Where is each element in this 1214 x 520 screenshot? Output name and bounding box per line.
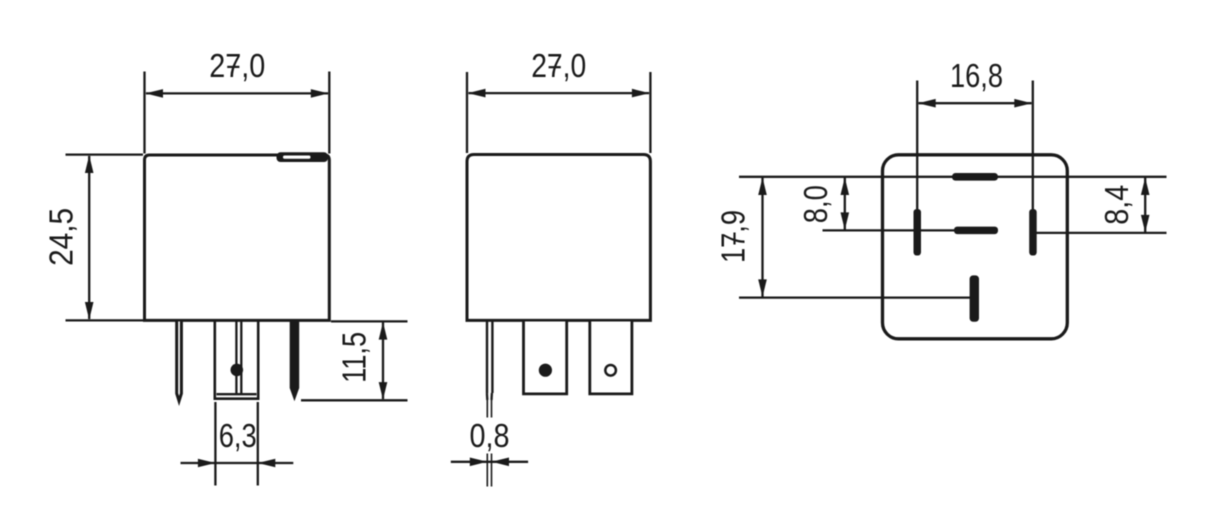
vent detail top-right (black bar)	[277, 152, 329, 162]
crossbar of 7 (middle)	[549, 66, 561, 68]
svg-text:24,5: 24,5	[43, 208, 80, 266]
ref line 8,0 bottom	[823, 229, 955, 231]
pin slot right (vertical bar)	[1029, 209, 1037, 256]
dim 8,0 arrow bottom	[841, 212, 850, 230]
pin slot left (vertical bar)	[914, 209, 922, 256]
svg-text:17,9: 17,9	[715, 210, 752, 263]
dim 16,8 dimension line	[919, 102, 1032, 104]
dim 8,0 dimension line	[844, 178, 846, 230]
pin 2 inner vertical line a	[235, 322, 237, 394]
svg-text:8,4: 8,4	[1098, 185, 1135, 225]
ref line 8,4 bottom	[1037, 232, 1167, 234]
dim 6,3 arrow R (outside)	[258, 459, 276, 468]
pin 4 taper b	[490, 393, 493, 400]
pin 2 bottom outer edge	[214, 397, 260, 400]
dim 27,0 mid extension line L	[466, 72, 468, 153]
dim 8,0 arrow top	[841, 178, 850, 196]
dim 11,5 arrow top	[379, 322, 388, 340]
dim 24,5 top extension line	[66, 153, 144, 155]
dim 0,8 arrow L (outside)	[470, 458, 488, 467]
svg-text:6,3: 6,3	[219, 417, 257, 454]
pin 3 (solid blade, pointed tip)	[290, 322, 300, 402]
svg-text:0,8: 0,8	[470, 417, 510, 454]
dim 16,8 arrow L	[918, 99, 936, 108]
pin 4 (narrow blade edge-on) line a	[486, 322, 488, 394]
svg-text:8,0: 8,0	[797, 185, 834, 223]
dim 27,0 left dimension line	[146, 92, 328, 94]
dim 27,0 mid arrow R	[632, 89, 650, 98]
vent slot (white)	[283, 156, 311, 159]
dim 8,4 arrow bottom	[1141, 215, 1150, 233]
pin slot bottom (vertical bar)	[970, 275, 979, 321]
pin 6 (blade with hole) outline	[590, 322, 632, 394]
ref line top (17,9 / 8,0 / 8,4 top)	[739, 176, 1167, 178]
dim 6,3 extension line L	[214, 402, 216, 486]
dim 11,5 arrow bottom	[379, 382, 388, 400]
pin 4 line b	[491, 322, 493, 394]
relay body (bottom view)	[883, 155, 1068, 339]
svg-text:16,8: 16,8	[950, 57, 1003, 94]
dim 8,4 dimension line	[1144, 178, 1146, 232]
svg-text:27,0: 27,0	[531, 47, 586, 84]
relay body (side view)	[467, 155, 650, 321]
dim 17,9 arrow bottom	[758, 279, 767, 297]
dim 17,9 dimension line	[761, 178, 763, 297]
pin 5 (blade with rivet) outline	[524, 322, 567, 394]
dim 0,8 extension line b	[491, 400, 493, 418]
dim 11,5 bottom reference line	[301, 399, 408, 401]
dim 6,3 arrow L (outside)	[198, 459, 216, 468]
dim 0,8 extension line a	[486, 400, 488, 418]
dim 27,0 left arrow R	[311, 89, 329, 98]
dim 27,0 mid arrow L	[468, 89, 486, 98]
pin 2 rivet (filled circle)	[231, 364, 244, 377]
dim 24,5 bottom extension line	[66, 319, 144, 321]
pin 2 right edge	[257, 322, 260, 400]
pin 4 taper a	[486, 393, 489, 400]
dim 16,8 extension line L	[916, 81, 918, 210]
pin slot top (horizontal bar)	[952, 173, 998, 181]
pin slot middle (horizontal bar)	[954, 227, 998, 235]
pin 2 inner vertical line b	[240, 322, 242, 394]
pin 2 (wide blade, outline) left edge	[214, 322, 217, 400]
dim 27,0 mid extension line R	[649, 72, 651, 153]
dim 0,8 arrow R (outside)	[492, 458, 510, 467]
dim 24,5 arrow top	[85, 155, 94, 173]
dim 16,8 arrow R	[1014, 99, 1032, 108]
svg-text:27,0: 27,0	[209, 47, 265, 84]
dim 27,0 mid dimension line	[469, 92, 650, 94]
dim 27,0 left extension line L	[143, 72, 145, 154]
dim 17,9 arrow top	[758, 178, 767, 196]
crossbar of 7 (17,9)	[733, 233, 735, 245]
dim 6,3 extension line R	[257, 402, 259, 486]
pin 2 bottom inner line	[217, 393, 257, 395]
crossbar of 7	[227, 66, 239, 68]
pin 5 rivet (filled)	[539, 364, 552, 377]
dim 27,0 left extension line R	[328, 72, 330, 154]
pin 5 bottom inner line	[527, 392, 562, 394]
relay body (front view)	[145, 155, 330, 320]
pin 6 bottom inner line	[594, 392, 628, 394]
pin 6 hole (circle outline)	[605, 365, 616, 376]
ref line 17,9 bottom	[739, 296, 970, 298]
dim 27,0 left arrow L	[145, 89, 163, 98]
dim 0,8 dimension line	[451, 461, 528, 463]
dim 6,3 dimension line	[181, 462, 294, 464]
dim 16,8 extension line R	[1032, 81, 1034, 210]
dim 24,5 dimension line	[88, 156, 90, 319]
svg-text:11,5: 11,5	[336, 332, 373, 383]
pin 1 (narrow blade, outline, pointed tip)	[177, 322, 182, 402]
dim 11,5 top reference line	[331, 320, 408, 322]
dim 8,4 arrow top	[1141, 178, 1150, 196]
dim 24,5 arrow bottom	[85, 302, 94, 320]
dim 11,5 dimension line	[382, 323, 384, 400]
